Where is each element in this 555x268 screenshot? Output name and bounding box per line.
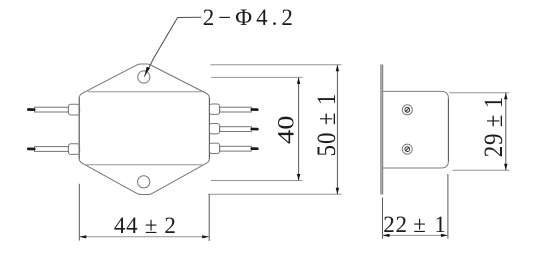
leader arrowhead: [145, 67, 151, 76]
svg-text:22±1: 22±1: [383, 212, 446, 237]
arrows 22: [383, 234, 390, 237]
pin left bottom: base: [68, 144, 79, 155]
body bottom line (behind): [453, 169, 510, 171]
body top line (behind): [449, 92, 509, 94]
ext line 22 left: [382, 198, 384, 239]
pin right bottom: base: [209, 143, 219, 153]
pin right middle: wire: [220, 127, 252, 132]
svg-text:40: 40: [273, 115, 299, 144]
mounting hole top: [138, 71, 150, 83]
pin lead black tips: [28, 110, 257, 150]
screw hole bottom outer: [402, 144, 412, 154]
dim line 29: [505, 93, 507, 171]
svg-text:50±1: 50±1: [313, 93, 342, 157]
ext line top hole (40): [211, 76, 303, 78]
ext line 44 right: [208, 194, 210, 241]
arrows 44: [79, 235, 86, 238]
pin right bottom: wire: [220, 146, 252, 151]
ext line top apex (50): [211, 64, 342, 66]
ext line 22 right: [447, 174, 449, 239]
bracket flange edge-on (left thin strip): [380, 64, 382, 194]
bracket plate with rounded right corners: [383, 91, 449, 168]
screw hole top outer: [402, 105, 412, 115]
pin left top: wire: [35, 107, 69, 112]
pin right middle: base: [209, 124, 219, 134]
svg-text:44±2: 44±2: [114, 213, 177, 238]
screw slot marks: [405, 107, 410, 151]
body top chord: [88, 91, 202, 93]
ext line bottom hole (40): [211, 180, 302, 182]
body left edge (darker vertical): [78, 98, 80, 160]
leader horizontal segment: [144, 17, 201, 77]
tip right middle: [252, 128, 257, 131]
body bottom chord: [86, 164, 202, 166]
pin right top: wire: [220, 107, 252, 112]
ext line 44 left: [78, 184, 80, 241]
pin left top: base: [68, 104, 79, 115]
tip left bottom: [28, 148, 34, 151]
body right edge (darker vertical): [208, 98, 210, 160]
svg-text:29±1: 29±1: [479, 96, 508, 157]
mounting hole bottom: [138, 176, 150, 188]
pin right top: base: [209, 104, 219, 114]
tip right bottom: [252, 147, 257, 150]
dim line 44: [79, 236, 209, 238]
arrows 29: [383, 93, 508, 237]
pin left bottom: wire: [35, 147, 69, 152]
ext line bottom apex (50): [208, 193, 341, 195]
tip left top: [28, 108, 34, 111]
arrows 50: [336, 65, 339, 72]
tip right top: [252, 108, 257, 111]
filter body hexagonal flange outline: [79, 64, 209, 195]
dim line 40: [298, 77, 300, 180]
arrows 40: [79, 65, 339, 239]
plate right edge (darker vertical): [447, 98, 449, 161]
dim line 22: [383, 234, 448, 236]
svg-text:2−Φ4.2: 2−Φ4.2: [203, 5, 297, 30]
dim line 50: [336, 65, 338, 195]
